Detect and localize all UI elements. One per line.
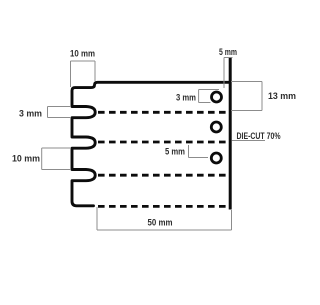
dimension 10 mm top (tab width) xyxy=(71,61,96,87)
label DIE-CUT 70% with leader line xyxy=(232,140,266,142)
die-cut dashed line 3 xyxy=(98,174,229,177)
hole circle 3 xyxy=(211,153,221,163)
die-cut dashed line 1 xyxy=(98,111,229,114)
svg-text:3 mm: 3 mm xyxy=(19,109,42,120)
dimension 5 mm middle (hole to die-cut line) xyxy=(189,145,209,158)
svg-text:10 mm: 10 mm xyxy=(12,154,40,165)
body right edge xyxy=(229,58,232,210)
svg-text:10 mm: 10 mm xyxy=(70,49,95,60)
body outline left (top edge, step, left edge with three notches, bottom-left corner) xyxy=(72,82,230,206)
dimension 50 mm bottom (overall width) xyxy=(97,207,232,230)
dimension 13 mm right xyxy=(231,82,262,111)
svg-text:13 mm: 13 mm xyxy=(268,91,296,102)
svg-text:50 mm: 50 mm xyxy=(148,218,173,229)
dimension 5 mm top right (hole edge distance) xyxy=(224,58,233,89)
hole circle 1 xyxy=(212,92,222,102)
die-cut dashed line 2 xyxy=(98,141,229,144)
dimension 10 mm left (notch spacing) xyxy=(42,148,71,170)
svg-text:DIE-CUT 70%: DIE-CUT 70% xyxy=(237,131,281,141)
hole circle 2 xyxy=(211,122,221,132)
svg-text:5 mm: 5 mm xyxy=(165,147,185,158)
die-cut dashed bottom edge xyxy=(98,205,229,208)
dimension 3 mm left (notch height) xyxy=(48,107,72,118)
svg-text:3 mm: 3 mm xyxy=(176,93,196,104)
dimension 3 mm right (hole diameter) xyxy=(199,90,219,103)
svg-text:5 mm: 5 mm xyxy=(219,47,237,58)
